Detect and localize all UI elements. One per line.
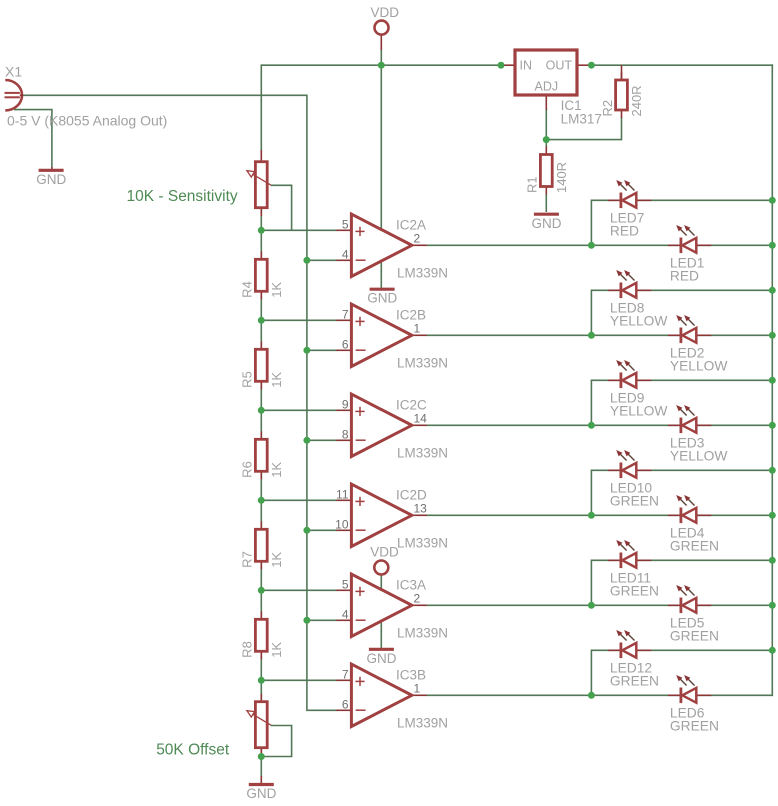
wire LED branch block 1 bbox=[591, 200, 772, 244]
pin stub IC1 IN bbox=[501, 64, 515, 66]
wire reference ladder vertical bbox=[260, 208, 262, 757]
svg-text:10: 10 bbox=[335, 517, 349, 531]
pin stub 50K pot bottom bbox=[260, 748, 262, 756]
svg-text:1K: 1K bbox=[269, 282, 284, 298]
wire X1 signal to comparator inverting inputs bbox=[23, 95, 337, 710]
pin stub ground below 50K pot bbox=[260, 776, 262, 783]
pin stub output block 2 bbox=[412, 334, 427, 336]
trimmer potentiometer 10K sensitivity bbox=[247, 162, 271, 208]
svg-text:LM339N: LM339N bbox=[397, 445, 448, 460]
svg-text:LM339N: LM339N bbox=[397, 355, 448, 370]
junction right rail output row 1 bbox=[769, 242, 776, 249]
wire comparator output row block 3 bbox=[426, 424, 772, 426]
resistor R6 1K bbox=[240, 431, 284, 479]
comparator IC3B (LM339N) bbox=[351, 664, 412, 726]
svg-text:IC3B: IC3B bbox=[396, 667, 426, 682]
svg-text:GND: GND bbox=[367, 291, 397, 306]
wire non-inverting input row block 4 bbox=[261, 499, 337, 501]
wire LED branch block 3 bbox=[591, 380, 772, 424]
junction right rail output row 5 bbox=[769, 602, 776, 609]
pin stub - input block 4 bbox=[336, 529, 351, 531]
svg-text:R8: R8 bbox=[240, 641, 255, 658]
junction right rail LED branch row 3 bbox=[769, 377, 776, 384]
wire 50K pot bottom to ground bbox=[260, 757, 262, 777]
svg-text:IC2A: IC2A bbox=[396, 217, 426, 232]
wire non-inverting input row block 2 bbox=[261, 319, 337, 321]
svg-text:R2: R2 bbox=[600, 100, 615, 117]
junction right rail LED branch row 4 bbox=[769, 467, 776, 474]
svg-text:VDD: VDD bbox=[371, 5, 400, 20]
pin stub + input block 5 bbox=[336, 589, 351, 591]
svg-text:IC2B: IC2B bbox=[396, 307, 426, 322]
svg-text:YELLOW: YELLOW bbox=[610, 404, 668, 419]
pin stub 10K pot top bbox=[260, 150, 262, 162]
junction right rail LED branch row 6 bbox=[769, 647, 776, 654]
pin stub output block 1 bbox=[412, 244, 427, 246]
pin stub - input block 6 bbox=[336, 709, 351, 711]
wire LED branch block 2 bbox=[591, 290, 772, 334]
svg-text:9: 9 bbox=[342, 397, 349, 411]
VDD supply symbol top bbox=[371, 5, 400, 35]
resistor R4 1K bbox=[240, 251, 284, 299]
svg-text:1: 1 bbox=[414, 321, 421, 335]
pin stub X1 ground drop bbox=[51, 167, 53, 170]
svg-text:R6: R6 bbox=[240, 461, 255, 478]
LED LED3 YELLOW bbox=[668, 405, 728, 464]
comparator IC2C (LM339N) bbox=[351, 394, 412, 456]
pin stub - input block 2 bbox=[336, 349, 351, 351]
junction at VDD rail / VDD symbol bbox=[378, 62, 385, 69]
svg-text:8: 8 bbox=[342, 427, 349, 441]
svg-text:240R: 240R bbox=[629, 85, 644, 116]
svg-text:5: 5 bbox=[342, 577, 349, 591]
wire inverting input row block 2 bbox=[306, 349, 337, 351]
junction ladder / 10K pot bottom bbox=[258, 227, 265, 234]
wire 50K pot wiper loop bbox=[261, 726, 292, 757]
svg-text:GND: GND bbox=[36, 172, 66, 187]
svg-text:R1: R1 bbox=[525, 176, 540, 193]
junction at ADJ divider bbox=[543, 136, 550, 143]
svg-text:GREEN: GREEN bbox=[670, 539, 719, 554]
svg-text:1K: 1K bbox=[269, 642, 284, 658]
svg-text:14: 14 bbox=[414, 411, 428, 425]
comparator IC2D (LM339N) bbox=[351, 484, 412, 546]
wire inverting input row block 5 bbox=[306, 619, 337, 621]
pin stub output block 6 bbox=[412, 694, 427, 696]
svg-text:YELLOW: YELLOW bbox=[610, 314, 668, 329]
LED LED12 GREEN bbox=[608, 630, 659, 689]
junction right rail output row 4 bbox=[769, 512, 776, 519]
wire non-inverting input row block 3 bbox=[261, 409, 337, 411]
LED LED5 GREEN bbox=[668, 585, 719, 644]
junction signal line at inverting input 5 bbox=[303, 617, 310, 624]
connector X1 (jack) bbox=[5, 80, 24, 110]
pin stub + input block 4 bbox=[336, 499, 351, 501]
wire inverting input row block 3 bbox=[306, 439, 337, 441]
wire LED branch block 4 bbox=[591, 470, 772, 514]
wire comparator output row block 6 bbox=[426, 694, 772, 696]
LED LED1 RED bbox=[668, 225, 711, 284]
svg-text:2: 2 bbox=[414, 591, 421, 605]
svg-text:GREEN: GREEN bbox=[670, 719, 719, 734]
svg-text:6: 6 bbox=[342, 697, 349, 711]
wire IC1 ADJ to divider bbox=[546, 108, 621, 140]
LED LED11 GREEN bbox=[608, 540, 659, 599]
wire comparator output row block 4 bbox=[426, 514, 772, 516]
wire LED branch block 5 bbox=[591, 560, 772, 604]
wire LED branch block 6 bbox=[591, 650, 772, 694]
ground below 50K pot bbox=[246, 785, 276, 802]
resistor R7 1K bbox=[240, 521, 284, 569]
ground below R1 bbox=[532, 214, 562, 231]
pin stub - input block 3 bbox=[336, 439, 351, 441]
junction right rail LED branch row 1 bbox=[769, 197, 776, 204]
svg-text:X1: X1 bbox=[5, 64, 22, 80]
resistor R2 240R bbox=[600, 72, 644, 118]
pin stub - input block 1 bbox=[336, 259, 351, 261]
wire non-inverting input row block 6 bbox=[261, 679, 337, 681]
comparator IC2A (LM339N) bbox=[351, 214, 412, 276]
junction at IC1 OUT bbox=[588, 62, 595, 69]
LED LED6 GREEN bbox=[668, 675, 719, 734]
junction ladder row 2 bbox=[258, 317, 265, 324]
pin stub - input block 5 bbox=[336, 619, 351, 621]
svg-text:LM317: LM317 bbox=[561, 112, 602, 127]
pin stub R2 top bbox=[621, 65, 623, 80]
ground below IC2A bbox=[367, 289, 397, 306]
pin stub + input block 6 bbox=[336, 679, 351, 681]
svg-text:GREEN: GREEN bbox=[610, 584, 659, 599]
LED LED9 YELLOW bbox=[608, 360, 668, 419]
svg-text:7: 7 bbox=[342, 307, 349, 321]
wire comparator output row block 2 bbox=[426, 334, 772, 336]
svg-text:YELLOW: YELLOW bbox=[670, 449, 728, 464]
resistor R5 1K bbox=[240, 341, 284, 389]
svg-text:1K: 1K bbox=[269, 372, 284, 388]
wire VDD rail from ladder top to IC1 IN bbox=[261, 64, 501, 66]
junction output row 3 LED branch bbox=[588, 422, 595, 429]
pin stub + input block 3 bbox=[336, 409, 351, 411]
pin stub output block 3 bbox=[412, 424, 427, 426]
VDD supply symbol above IC3A bbox=[370, 545, 399, 575]
svg-text:ADJ: ADJ bbox=[534, 80, 558, 94]
svg-text:GND: GND bbox=[246, 786, 276, 801]
svg-text:11: 11 bbox=[336, 487, 349, 501]
junction signal line at inverting input 2 bbox=[303, 347, 310, 354]
junction ladder row 3 bbox=[258, 407, 265, 414]
wire inverting input row block 4 bbox=[306, 529, 337, 531]
pin stub output block 4 bbox=[412, 514, 427, 516]
pin stub 10K pot bottom bbox=[260, 208, 262, 217]
svg-text:1K: 1K bbox=[269, 552, 284, 568]
svg-text:0-5 V (K8055 Analog Out): 0-5 V (K8055 Analog Out) bbox=[7, 113, 167, 129]
resistor R8 1K bbox=[240, 611, 284, 659]
wire 10K pot wiper to ladder junction bbox=[271, 185, 292, 230]
comparator IC3A (LM339N) bbox=[351, 574, 412, 636]
wire X1 sleeve to ground bbox=[14, 110, 52, 168]
junction ladder / 50K pot bottom bbox=[258, 753, 265, 760]
wire non-inverting input row block 1 bbox=[261, 229, 337, 231]
LED LED10 GREEN bbox=[608, 450, 659, 509]
svg-text:50K Offset: 50K Offset bbox=[156, 742, 230, 759]
pin stub IC1 OUT bbox=[577, 64, 591, 66]
svg-text:IN: IN bbox=[520, 59, 533, 73]
wire comparator output row block 5 bbox=[426, 604, 772, 606]
pin stub output block 5 bbox=[412, 604, 427, 606]
svg-text:10K - Sensitivity: 10K - Sensitivity bbox=[127, 188, 238, 205]
junction right rail output row 2 bbox=[769, 332, 776, 339]
svg-text:GREEN: GREEN bbox=[610, 674, 659, 689]
svg-text:LM339N: LM339N bbox=[397, 625, 448, 640]
comparator IC2B (LM339N) bbox=[351, 304, 412, 366]
junction ladder row 5 bbox=[258, 587, 265, 594]
junction signal line at inverting input 1 bbox=[303, 257, 310, 264]
svg-text:4: 4 bbox=[342, 247, 349, 261]
junction signal line at inverting input 3 bbox=[303, 437, 310, 444]
pin stub VDD top symbol bbox=[380, 35, 382, 50]
junction output row 6 LED branch bbox=[588, 692, 595, 699]
svg-text:LM339N: LM339N bbox=[397, 265, 448, 280]
junction at IC1 IN bbox=[498, 62, 505, 69]
trimmer potentiometer 50K offset bbox=[247, 702, 271, 748]
ground below X1 bbox=[36, 170, 66, 187]
wire IC3A VDD symbol stub bbox=[380, 575, 382, 590]
svg-text:2: 2 bbox=[414, 231, 421, 245]
pin stub IC1 ADJ bbox=[545, 95, 547, 110]
junction output row 2 LED branch bbox=[588, 332, 595, 339]
resistor R1 140R bbox=[525, 147, 569, 195]
junction right rail LED branch row 5 bbox=[769, 557, 776, 564]
junction output row 5 LED branch bbox=[588, 602, 595, 609]
svg-text:VDD: VDD bbox=[370, 545, 399, 560]
LED LED2 YELLOW bbox=[668, 315, 728, 374]
wire from IC1 OUT to right rail corner bbox=[591, 64, 773, 66]
pin stub + input block 1 bbox=[336, 229, 351, 231]
svg-text:GREEN: GREEN bbox=[670, 629, 719, 644]
wire ADJ junction down to R1 bbox=[545, 140, 547, 148]
wire R1 bottom to ground bbox=[545, 194, 547, 212]
svg-text:GND: GND bbox=[532, 216, 562, 231]
svg-text:IC2C: IC2C bbox=[396, 397, 427, 412]
pin stub 50K pot top bbox=[260, 694, 262, 702]
junction right rail LED branch row 2 bbox=[769, 287, 776, 294]
wire IC3A ground pin drop bbox=[380, 621, 382, 648]
wire comparator output row block 1 bbox=[426, 244, 772, 246]
wire VDD symbol drop to rail bbox=[380, 50, 382, 65]
svg-text:R5: R5 bbox=[240, 371, 255, 388]
svg-text:140R: 140R bbox=[554, 162, 569, 193]
junction ladder row 6 bbox=[258, 677, 265, 684]
svg-text:7: 7 bbox=[342, 667, 349, 681]
wire ladder top from rail down to 10K pot bbox=[260, 64, 262, 150]
svg-text:GND: GND bbox=[367, 651, 397, 666]
svg-text:R4: R4 bbox=[240, 281, 255, 298]
junction output row 1 LED branch bbox=[588, 242, 595, 249]
junction signal line at inverting input 4 bbox=[303, 527, 310, 534]
ground below IC3A bbox=[367, 649, 397, 666]
svg-text:R7: R7 bbox=[240, 551, 255, 568]
svg-text:13: 13 bbox=[414, 501, 428, 515]
svg-text:OUT: OUT bbox=[546, 59, 573, 73]
LED LED8 YELLOW bbox=[608, 270, 668, 329]
junction right rail output row 3 bbox=[769, 422, 776, 429]
svg-text:RED: RED bbox=[670, 269, 699, 284]
svg-text:6: 6 bbox=[342, 337, 349, 351]
wire inverting input row block 1 bbox=[306, 259, 337, 261]
pin stub + input block 2 bbox=[336, 319, 351, 321]
regulator IC1 LM317 bbox=[515, 50, 577, 95]
svg-text:YELLOW: YELLOW bbox=[670, 359, 728, 374]
wire IC2A supply pin to VDD rail bbox=[380, 65, 382, 229]
svg-text:RED: RED bbox=[610, 224, 639, 239]
junction ladder row 4 bbox=[258, 497, 265, 504]
svg-text:GREEN: GREEN bbox=[610, 494, 659, 509]
svg-text:LM339N: LM339N bbox=[397, 715, 448, 730]
svg-text:5: 5 bbox=[342, 217, 349, 231]
LED LED7 RED bbox=[608, 180, 651, 239]
svg-text:IC2D: IC2D bbox=[396, 487, 427, 502]
wire non-inverting input row block 5 bbox=[261, 589, 337, 591]
svg-text:4: 4 bbox=[342, 607, 349, 621]
svg-text:1K: 1K bbox=[269, 462, 284, 478]
svg-text:1: 1 bbox=[414, 681, 421, 695]
svg-text:IC3A: IC3A bbox=[396, 577, 426, 592]
junction output row 4 LED branch bbox=[588, 512, 595, 519]
svg-text:LM339N: LM339N bbox=[397, 535, 448, 550]
wire IC2A ground pin drop bbox=[380, 262, 382, 288]
wire right supply rail vertical bbox=[771, 64, 773, 696]
LED LED4 GREEN bbox=[668, 495, 719, 554]
